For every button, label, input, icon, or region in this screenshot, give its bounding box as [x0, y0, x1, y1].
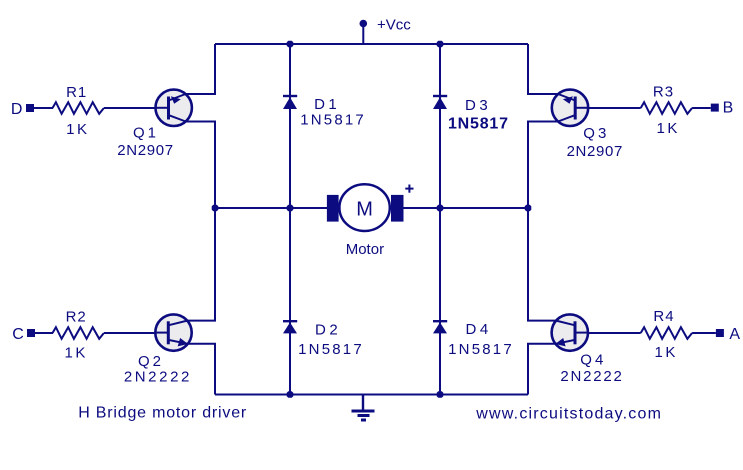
svg-text:D: D	[11, 101, 23, 118]
svg-text:1N5817: 1N5817	[448, 341, 514, 358]
svg-text:Q4: Q4	[580, 352, 606, 369]
transistor Q3 2N2907 PNP	[552, 90, 588, 126]
diode D2 1N5817	[283, 321, 297, 333]
svg-text:2N2222: 2N2222	[124, 368, 192, 385]
junction: bottom rail / D4 column	[437, 391, 444, 398]
svg-text:2N2222: 2N2222	[560, 368, 623, 385]
svg-text:D2: D2	[315, 321, 341, 338]
svg-text:R1: R1	[66, 84, 87, 101]
wire: C terminal to R2	[35, 332, 53, 334]
wire: Q3 base to R3	[588, 107, 641, 109]
transistor Q4 2N2222 NPN	[552, 314, 588, 350]
svg-text:Motor: Motor	[346, 241, 384, 258]
wire: R4 to A terminal	[692, 332, 716, 334]
svg-text:R2: R2	[66, 308, 87, 325]
wire: Q3 collector to middle rail	[528, 122, 558, 209]
wire: Q3 emitter to +Vcc rail	[528, 44, 558, 94]
wire: Q2 emitter to ground rail	[188, 344, 215, 395]
svg-text:1N5817: 1N5817	[300, 111, 366, 128]
svg-text:C: C	[12, 326, 24, 343]
resistor R1	[53, 102, 104, 114]
wire: middle rail right segment	[403, 207, 528, 209]
svg-text:D4: D4	[466, 321, 492, 338]
svg-text:2N2907: 2N2907	[567, 143, 623, 160]
wire: Q4 base to R4	[588, 332, 641, 334]
svg-text:1K: 1K	[657, 120, 680, 137]
node D terminal	[26, 104, 34, 112]
svg-text:Q1: Q1	[133, 124, 159, 141]
motor M	[327, 184, 404, 231]
svg-text:A: A	[729, 326, 740, 343]
wire: Q4 collector to middle rail	[528, 208, 556, 321]
node A terminal	[716, 329, 724, 337]
diode D3 1N5817	[433, 96, 447, 109]
wire: Q1 collector to middle rail	[186, 122, 215, 209]
junction: top rail / D1 column	[287, 41, 294, 48]
svg-text:www.circuitstoday.com: www.circuitstoday.com	[475, 406, 662, 423]
svg-text:D3: D3	[465, 97, 491, 114]
svg-text:1N5817: 1N5817	[448, 115, 509, 132]
wire: D3-D4 column	[439, 44, 441, 395]
svg-text:M: M	[356, 198, 373, 220]
svg-text:1N5817: 1N5817	[298, 341, 364, 358]
wire: D terminal to R1	[34, 107, 53, 109]
transistor Q1 2N2907 PNP	[156, 90, 192, 126]
transistor Q2 2N2222 NPN	[155, 314, 191, 350]
wire: ground bottom rail	[215, 394, 528, 396]
wire: +Vcc top rail	[215, 43, 528, 45]
svg-text:B: B	[723, 100, 734, 117]
wire: R1 to Q1 base	[104, 107, 156, 109]
node C terminal	[27, 329, 35, 337]
resistor R4	[641, 327, 692, 339]
resistor R3	[641, 102, 692, 114]
resistor R2	[53, 327, 104, 339]
svg-text:R4: R4	[653, 308, 674, 325]
wire: D1-D2 column	[289, 44, 291, 395]
junction: middle rail / D1 column	[287, 205, 294, 212]
svg-text:1K: 1K	[66, 121, 89, 138]
diode D4 1N5817	[433, 321, 447, 333]
svg-text:R3: R3	[653, 84, 674, 101]
svg-text:1K: 1K	[65, 345, 88, 362]
svg-text:+Vcc: +Vcc	[377, 17, 411, 34]
wire: middle rail left segment	[215, 207, 328, 209]
node B terminal	[711, 104, 719, 112]
svg-text:2N2907: 2N2907	[117, 142, 173, 159]
svg-text:Q3: Q3	[583, 125, 609, 142]
junction: bottom rail / D2 column	[287, 391, 294, 398]
wire: R2 to Q2 base	[104, 332, 156, 334]
svg-text:H Bridge motor driver: H Bridge motor driver	[78, 404, 247, 421]
label motor polarity +	[405, 185, 413, 193]
junction: top rail / D3 column	[437, 41, 444, 48]
wire: R3 to B terminal	[692, 107, 711, 109]
wire: Q4 emitter to ground rail	[528, 344, 556, 395]
junction: middle rail / D3 column	[437, 205, 444, 212]
junction: middle rail / left column	[212, 205, 219, 212]
wire: Q2 collector to middle rail	[187, 208, 215, 321]
diode D1 1N5817	[283, 96, 297, 109]
power terminal +Vcc	[360, 20, 368, 44]
wire: Q1 emitter to +Vcc rail	[186, 44, 215, 94]
junction: middle rail / right column	[525, 205, 532, 212]
svg-text:1K: 1K	[655, 344, 678, 361]
ground	[352, 395, 375, 421]
